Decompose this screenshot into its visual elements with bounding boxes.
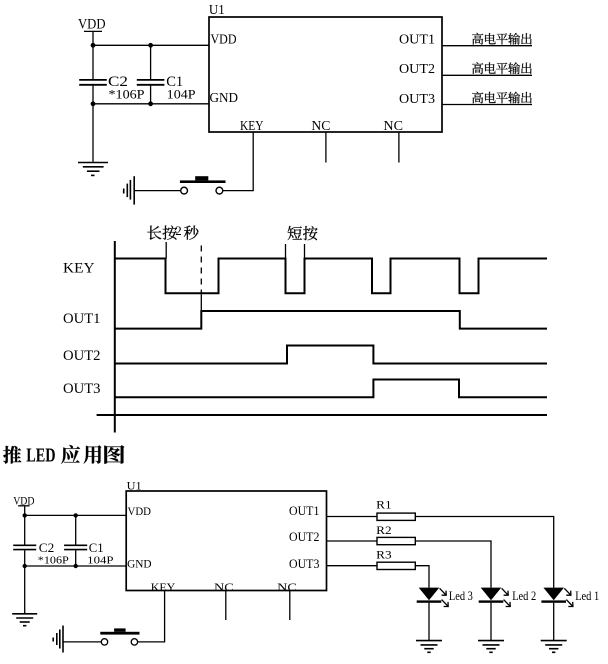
- switch S1 push button (bottom): [100, 628, 139, 645]
- svg-text:U1: U1: [209, 3, 225, 18]
- label 短按: [288, 226, 318, 240]
- waveform OUT3: [115, 380, 547, 398]
- wire R2 to Led2: [415, 541, 491, 588]
- wire OUT3 output: [442, 104, 532, 106]
- pin VDD (bottom): [128, 504, 152, 518]
- ground: [78, 163, 108, 176]
- wire R1 to Led1: [415, 517, 553, 588]
- node junction GND-C1 (bottom): [74, 564, 78, 568]
- IC U1: [209, 3, 442, 132]
- svg-text:Led 1: Led 1: [575, 589, 599, 603]
- LED Led1: [541, 588, 573, 641]
- pin OUT2 (bottom): [289, 530, 319, 544]
- svg-text:VDD: VDD: [78, 16, 106, 33]
- capacitor C2 (bottom): [13, 515, 54, 566]
- resistor R3: [376, 548, 415, 570]
- pin NC (bottom): [214, 580, 234, 594]
- pin OUT1 (bottom): [289, 504, 319, 518]
- svg-text:LED: LED: [26, 446, 55, 467]
- OUT1 rising edge extension: [200, 294, 202, 311]
- net label 高电平输出: [472, 92, 532, 104]
- leader line short press left: [285, 244, 287, 259]
- svg-text:OUT3: OUT3: [63, 381, 101, 397]
- signal label OUT3: [63, 381, 101, 397]
- signal label OUT1: [63, 311, 101, 327]
- svg-text:KEY: KEY: [63, 260, 95, 276]
- node junction GND-C2 (bottom): [23, 564, 27, 568]
- pin GND: [210, 91, 239, 106]
- waveform OUT1: [115, 311, 547, 329]
- leader line short press right: [304, 244, 306, 259]
- pin KEY: [240, 118, 264, 133]
- capacitor C1: [137, 45, 183, 104]
- wire KEY pin down: [223, 132, 253, 191]
- ground (Led1): [541, 641, 567, 653]
- wire OUT1 to R1: [327, 516, 378, 518]
- power net VDD: [78, 16, 106, 46]
- node junction GND-C1: [148, 101, 153, 106]
- node junction VDD-C2 (bottom): [23, 513, 27, 517]
- svg-text:104P: 104P: [167, 87, 196, 102]
- svg-text:OUT2: OUT2: [399, 62, 435, 77]
- node junction VDD-C2: [91, 43, 96, 48]
- svg-text:VDD: VDD: [211, 32, 237, 47]
- label Led 1: [575, 589, 599, 603]
- value label 104P (bottom): [87, 555, 113, 567]
- svg-text:OUT1: OUT1: [289, 504, 319, 518]
- svg-text:OUT1: OUT1: [63, 311, 101, 327]
- svg-text:R1: R1: [376, 497, 392, 511]
- ground (Led2): [478, 641, 504, 653]
- dashed line 2s mark: [200, 246, 202, 295]
- wire to ground (bottom): [24, 566, 26, 614]
- pin OUT3 (bottom): [289, 557, 319, 571]
- svg-text:NC: NC: [311, 118, 330, 133]
- ground (Led3): [416, 641, 442, 653]
- wire NC stub (bottom): [225, 591, 227, 621]
- svg-text:Led 3: Led 3: [449, 589, 473, 603]
- capacitor C2: [79, 45, 128, 104]
- svg-text:R3: R3: [376, 548, 392, 562]
- wire GND rail to U1 (bottom): [25, 565, 127, 567]
- wire OUT1 output: [442, 45, 532, 47]
- signal label OUT2: [63, 348, 101, 364]
- pin KEY (bottom): [151, 580, 176, 594]
- wire R3 to Led3: [415, 566, 429, 588]
- ground (button, bottom): [53, 626, 63, 653]
- value label 104P: [167, 87, 196, 102]
- wire button to ground: [134, 190, 180, 192]
- wire VDD rail to U1: [93, 44, 209, 46]
- ground (button): [124, 176, 135, 204]
- pin NC (bottom): [277, 580, 297, 594]
- svg-text:GND: GND: [127, 557, 152, 571]
- svg-text:KEY: KEY: [240, 118, 264, 133]
- label 长按2秒: [147, 223, 198, 240]
- pin OUT3: [399, 92, 435, 107]
- svg-text:NC: NC: [277, 580, 297, 594]
- capacitor C1 (bottom): [64, 515, 104, 566]
- pin VDD: [211, 32, 237, 47]
- LED Led2: [479, 588, 511, 641]
- wire NC stub: [325, 132, 327, 163]
- svg-text:2: 2: [175, 223, 182, 238]
- svg-text:R2: R2: [376, 523, 392, 537]
- LED Led3: [417, 588, 449, 641]
- wire to ground: [92, 104, 94, 162]
- wire VDD rail to U1 (bottom): [25, 514, 127, 516]
- title 推 LED 应用图: [3, 445, 124, 467]
- svg-text:OUT3: OUT3: [399, 92, 435, 107]
- svg-text:OUT2: OUT2: [289, 530, 319, 544]
- ground (bottom left): [12, 614, 37, 626]
- pin OUT1: [399, 33, 435, 48]
- waveform OUT2: [115, 346, 547, 364]
- pin NC: [383, 118, 403, 133]
- timing axis vertical: [114, 241, 116, 433]
- node junction GND-C2: [91, 101, 96, 106]
- wire NC stub: [398, 132, 400, 163]
- node junction VDD-C1 (bottom): [74, 513, 78, 517]
- net label 高电平输出: [472, 33, 532, 45]
- svg-text:C1: C1: [89, 540, 104, 555]
- svg-text:GND: GND: [210, 91, 239, 106]
- resistor R1: [376, 497, 415, 520]
- svg-text:KEY: KEY: [151, 580, 176, 594]
- leader line press start: [165, 242, 167, 259]
- svg-text:NC: NC: [383, 118, 403, 133]
- svg-text:104P: 104P: [87, 555, 113, 567]
- svg-text:OUT1: OUT1: [399, 33, 435, 48]
- power net VDD (bottom): [13, 493, 35, 515]
- waveform KEY: [115, 259, 547, 294]
- svg-text:*106P: *106P: [38, 555, 69, 567]
- svg-text:OUT2: OUT2: [63, 348, 101, 364]
- svg-text:VDD: VDD: [128, 504, 152, 518]
- wire GND rail to U1: [93, 103, 209, 105]
- wire NC stub (bottom): [289, 591, 291, 621]
- label Led 3: [449, 589, 473, 603]
- svg-text:OUT3: OUT3: [289, 557, 319, 571]
- svg-text:C2: C2: [39, 540, 55, 555]
- label Led 2: [512, 589, 536, 603]
- svg-text:Led 2: Led 2: [512, 589, 536, 603]
- value label *106P (bottom): [38, 555, 69, 567]
- value label *106P: [109, 87, 145, 102]
- pin GND (bottom): [127, 557, 152, 571]
- signal label KEY: [63, 260, 95, 276]
- wire OUT2 to R2: [327, 540, 378, 542]
- timing axis baseline: [97, 414, 547, 416]
- node junction VDD-C1: [148, 43, 153, 48]
- wire button to ground (bottom): [63, 641, 101, 643]
- pin OUT2: [399, 62, 435, 77]
- wire OUT2 output: [442, 74, 532, 76]
- svg-text:NC: NC: [214, 580, 234, 594]
- pin NC: [311, 118, 330, 133]
- IC U1 (bottom): [126, 479, 326, 591]
- net label 高电平输出: [472, 62, 532, 74]
- wire KEY pin down (bottom): [138, 591, 165, 642]
- wire OUT3 to R3: [327, 565, 378, 567]
- svg-text:*106P: *106P: [109, 87, 145, 102]
- switch S1 push button: [180, 176, 226, 194]
- resistor R2: [376, 523, 415, 545]
